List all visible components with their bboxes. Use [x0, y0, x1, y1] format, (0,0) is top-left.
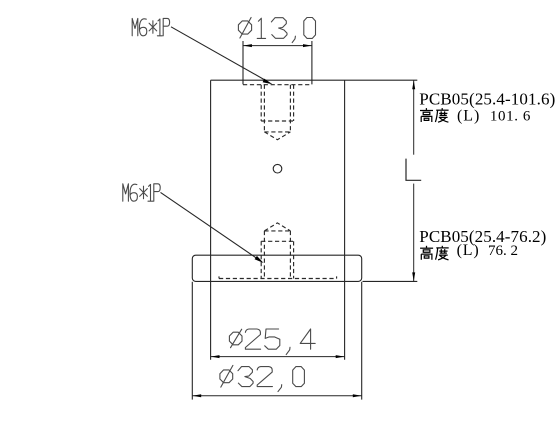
leader line to top thread M6: [171, 27, 266, 81]
L dimension line lower segment: [413, 184, 415, 282]
dia13 arrow right: [303, 44, 312, 47]
top pilot hole minor diameter lines: [263, 85, 265, 132]
svg-text:PCB05(25.4-101.6): PCB05(25.4-101.6): [419, 90, 555, 109]
dashed hidden lines: [219, 80, 337, 278]
dia13 dimension line: [243, 45, 312, 47]
top thread depth line: [261, 120, 293, 122]
svg-text:PCB05(25.4-76.2): PCB05(25.4-76.2): [419, 227, 546, 246]
glyph du (height label 2): [436, 246, 449, 260]
dia25.4 arrow right: [336, 355, 345, 358]
L dimension arrow up: [412, 80, 415, 89]
diameter symbol of dia32: [220, 370, 233, 383]
body right edge with extension line down to dia25.4 dimension: [344, 80, 346, 360]
dia13 extension line left: [242, 41, 244, 80]
bottom pilot hole minor diameter lines: [263, 231, 265, 279]
dia25.4 dimension line: [211, 356, 345, 358]
leader arrow top: [263, 79, 273, 85]
text: M6*1P top label: [132, 18, 169, 35]
dia32 arrow right: [353, 394, 362, 397]
bottom thread start line: [261, 240, 293, 242]
diameter symbol of dia25.4: [229, 332, 242, 345]
dia32 dimension line: [192, 395, 361, 397]
top thread major diameter lines: [260, 85, 262, 121]
body left edge with extension line down to dia25.4 dimension: [210, 80, 212, 360]
svg-text:101. 6: 101. 6: [490, 108, 531, 124]
glyph gao (height label 1): [420, 108, 433, 122]
glyph du (height label 1): [435, 108, 448, 122]
top hole chamfer dia13 hidden box: [243, 80, 312, 85]
stick-font CAD texts drawn as strokes: [123, 18, 316, 392]
text: 32,0: [238, 367, 253, 387]
flange rounded rectangle: [192, 255, 361, 281]
svg-text:(L): (L): [457, 242, 479, 259]
text: 25,4: [245, 329, 260, 349]
flange bottom recess hidden line: [219, 276, 337, 278]
dia32 extension line left: [191, 282, 193, 400]
dia25.4 arrow left: [211, 355, 220, 358]
text: 13,0: [257, 18, 265, 38]
dia32 extension line right: [361, 282, 363, 400]
L dimension arrow down: [412, 272, 415, 281]
leader line to bottom thread M6: [161, 192, 258, 258]
bottom pilot cone base line: [264, 230, 290, 232]
side hole circle: [273, 164, 282, 173]
dimension arrowheads: [192, 44, 415, 397]
leader arrow bottom: [255, 256, 264, 263]
text: M6*1P bottom label: [123, 184, 160, 201]
glyph gao (height label 2): [420, 246, 433, 260]
top drill point cone: [264, 132, 290, 140]
bottom drill point cone: [264, 223, 290, 231]
dia32 arrow left: [192, 394, 201, 397]
diameter symbol of dia13: [238, 21, 251, 34]
top pilot cone base line: [264, 131, 290, 133]
svg-text:76. 2: 76. 2: [488, 243, 518, 259]
letter L glyph of dimension: [406, 159, 421, 181]
dia13 arrow left: [243, 44, 252, 47]
L dimension line upper segment: [413, 80, 415, 155]
flange bottom extension line to L dimension: [363, 280, 418, 282]
svg-text:(L): (L): [457, 108, 479, 125]
body top edge with extension line to L dimension: [211, 79, 418, 81]
bottom thread major diameter lines: [260, 241, 262, 278]
dia13 extension line right: [311, 41, 313, 80]
